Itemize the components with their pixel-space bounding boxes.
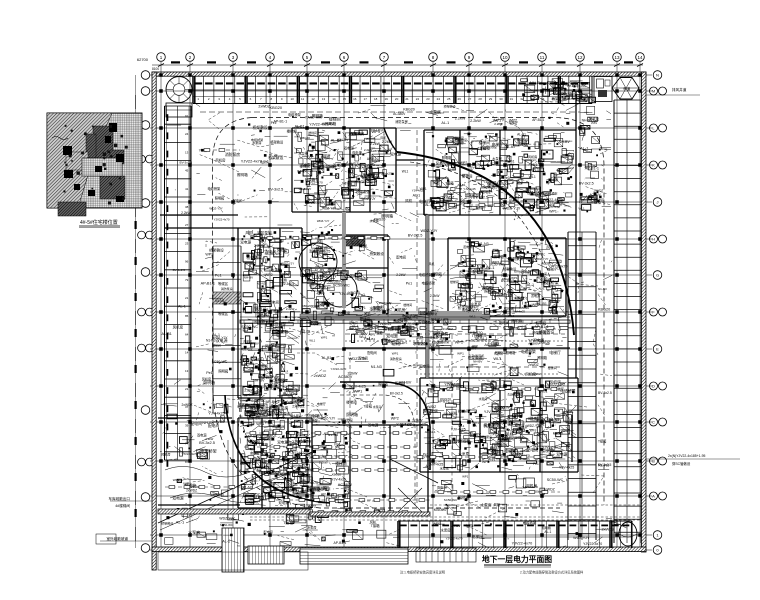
svg-text:电缆桥架: 电缆桥架 <box>422 281 436 286</box>
svg-text:风机房: 风机房 <box>215 158 226 163</box>
svg-text:电梯厅: 电梯厅 <box>467 345 478 350</box>
svg-text:楼梯间: 楼梯间 <box>504 306 515 311</box>
svg-text:电缆桥架: 电缆桥架 <box>419 272 433 277</box>
svg-text:18: 18 <box>374 97 378 101</box>
svg-text:消防泵房: 消防泵房 <box>221 286 233 291</box>
svg-text:桥架敷设: 桥架敷设 <box>545 88 557 93</box>
svg-text:YJV22-4x70: YJV22-4x70 <box>522 485 538 489</box>
svg-text:桥架敷设: 桥架敷设 <box>253 125 268 130</box>
svg-text:电缆桥架: 电缆桥架 <box>271 322 286 327</box>
svg-text:NH-BV: NH-BV <box>444 412 453 416</box>
svg-text:AL-B1: AL-B1 <box>254 358 264 362</box>
svg-text:YJV-4x25: YJV-4x25 <box>360 174 374 178</box>
svg-text:YJV22-4x70: YJV22-4x70 <box>307 201 323 205</box>
svg-text:AL-1: AL-1 <box>539 287 545 291</box>
svg-text:风机房: 风机房 <box>161 452 170 457</box>
svg-text:16: 16 <box>353 97 357 101</box>
svg-text:13: 13 <box>322 97 326 101</box>
svg-text:Pe1: Pe1 <box>423 453 429 457</box>
svg-text:Pe1: Pe1 <box>406 281 412 285</box>
svg-text:WDZ-YJY: WDZ-YJY <box>281 261 294 265</box>
svg-text:C: C <box>652 420 655 425</box>
svg-text:水泵房: 水泵房 <box>252 140 261 145</box>
svg-text:2xWDZ: 2xWDZ <box>212 419 226 424</box>
svg-text:WDZ-YJY: WDZ-YJY <box>249 413 262 417</box>
svg-text:WDZ-YJY: WDZ-YJY <box>320 274 337 278</box>
svg-text:62700: 62700 <box>137 57 149 62</box>
svg-text:电缆桥架: 电缆桥架 <box>201 448 217 454</box>
svg-text:楼梯间: 楼梯间 <box>280 472 291 477</box>
svg-text:配电间: 配电间 <box>540 277 551 282</box>
svg-text:SC50-WC: SC50-WC <box>547 478 564 482</box>
svg-text:YJV22-4x70: YJV22-4x70 <box>214 218 230 222</box>
svg-text:照明箱: 照明箱 <box>215 196 225 201</box>
svg-text:楼梯间: 楼梯间 <box>275 424 286 429</box>
svg-text:水泵房: 水泵房 <box>492 156 502 161</box>
svg-text:WDZ-YJY: WDZ-YJY <box>219 517 235 521</box>
svg-text:电梯厅: 电梯厅 <box>273 308 283 313</box>
svg-text:配电间: 配电间 <box>233 198 242 203</box>
svg-text:风机: 风机 <box>349 131 356 136</box>
svg-text:AL-1: AL-1 <box>352 324 359 328</box>
svg-text:21: 21 <box>405 97 409 101</box>
svg-text:SC50-WC: SC50-WC <box>572 84 587 88</box>
svg-text:配电间: 配电间 <box>437 485 446 490</box>
svg-text:AL-B1: AL-B1 <box>315 268 325 272</box>
svg-text:WP2: WP2 <box>173 478 180 482</box>
svg-text:21: 21 <box>185 387 189 391</box>
svg-text:2xWDZ: 2xWDZ <box>182 403 193 407</box>
svg-text:N1-N3: N1-N3 <box>550 418 560 422</box>
svg-text:风机: 风机 <box>245 230 252 235</box>
svg-text:N1-N3: N1-N3 <box>392 343 401 347</box>
svg-text:配电间: 配电间 <box>473 269 484 274</box>
svg-text:NH-BV: NH-BV <box>559 140 571 144</box>
svg-text:风机房: 风机房 <box>311 303 320 308</box>
svg-text:AL-1: AL-1 <box>213 333 220 337</box>
svg-text:电缆桥架: 电缆桥架 <box>237 404 251 409</box>
svg-text:AL-B1: AL-B1 <box>480 190 491 195</box>
svg-text:26: 26 <box>458 97 462 101</box>
svg-text:2.2kW: 2.2kW <box>430 294 440 298</box>
svg-text:14: 14 <box>637 55 643 60</box>
svg-text:桥架敷设: 桥架敷设 <box>517 137 528 141</box>
svg-text:2.2kW: 2.2kW <box>488 423 499 427</box>
svg-text:2.2kW: 2.2kW <box>396 273 406 277</box>
svg-text:27: 27 <box>468 97 472 101</box>
svg-text:64: 64 <box>185 332 189 336</box>
svg-text:双电源: 双电源 <box>390 151 401 156</box>
svg-text:2xWDZ: 2xWDZ <box>413 342 426 346</box>
svg-text:SC50-WC: SC50-WC <box>333 284 350 288</box>
svg-text:风机房: 风机房 <box>528 154 537 159</box>
svg-text:照明箱: 照明箱 <box>432 272 443 277</box>
svg-text:WP1: WP1 <box>472 421 479 425</box>
svg-text:2.2kW: 2.2kW <box>470 119 481 123</box>
svg-text:水泵房: 水泵房 <box>304 162 315 167</box>
svg-text:楼梯间: 楼梯间 <box>329 116 341 122</box>
svg-text:AP-B1-1: AP-B1-1 <box>532 118 544 122</box>
svg-text:T接箱: T接箱 <box>363 404 372 409</box>
svg-text:BV-3x2.5: BV-3x2.5 <box>514 269 530 274</box>
svg-text:WP1: WP1 <box>354 388 362 393</box>
svg-text:水泵房: 水泵房 <box>485 308 494 313</box>
svg-text:桥架敷设: 桥架敷设 <box>486 145 497 149</box>
svg-text:J: J <box>657 200 659 205</box>
svg-text:配电间: 配电间 <box>264 529 273 534</box>
svg-text:穿SC管敷设: 穿SC管敷设 <box>672 461 691 466</box>
svg-text:45: 45 <box>185 169 189 173</box>
svg-text:楼梯间: 楼梯间 <box>450 279 459 284</box>
svg-text:水泵房: 水泵房 <box>441 527 452 532</box>
svg-text:27: 27 <box>185 223 189 227</box>
svg-text:车道: 车道 <box>623 86 631 91</box>
svg-text:配电间: 配电间 <box>419 364 430 369</box>
svg-text:水泵房: 水泵房 <box>480 502 492 507</box>
svg-text:BV-3x2.5: BV-3x2.5 <box>553 92 567 96</box>
svg-text:WP1: WP1 <box>492 261 500 265</box>
svg-text:照明箱: 照明箱 <box>459 438 471 443</box>
svg-text:NH-BV: NH-BV <box>371 129 383 133</box>
svg-text:双电源: 双电源 <box>240 240 251 245</box>
svg-text:T接箱: T接箱 <box>592 200 601 205</box>
svg-text:WP2: WP2 <box>509 118 517 123</box>
svg-text:Pe1: Pe1 <box>206 371 213 375</box>
svg-text:YJV-4x25: YJV-4x25 <box>331 477 346 481</box>
svg-text:T接箱: T接箱 <box>398 318 408 323</box>
svg-text:2.2kW: 2.2kW <box>370 142 381 146</box>
svg-text:WP1: WP1 <box>321 336 328 340</box>
svg-text:风机: 风机 <box>546 245 554 250</box>
svg-text:10: 10 <box>291 97 295 101</box>
svg-text:AP-B1-1: AP-B1-1 <box>243 360 254 364</box>
svg-text:水泵房: 水泵房 <box>440 160 449 165</box>
svg-text:N1-N3: N1-N3 <box>242 486 252 490</box>
svg-text:楼梯间: 楼梯间 <box>212 343 221 347</box>
svg-text:风机房: 风机房 <box>549 380 561 385</box>
svg-text:楼梯间: 楼梯间 <box>335 461 347 466</box>
svg-text:Pe1: Pe1 <box>271 121 277 125</box>
svg-text:AL-1: AL-1 <box>293 423 301 428</box>
svg-text:双电源: 双电源 <box>497 292 506 297</box>
svg-text:WDZ-YJY: WDZ-YJY <box>527 424 542 428</box>
svg-text:17: 17 <box>364 97 368 101</box>
svg-text:等候区: 等候区 <box>218 281 229 286</box>
svg-text:AL-1: AL-1 <box>580 146 589 151</box>
svg-text:水泵房: 水泵房 <box>307 525 316 530</box>
svg-text:T接箱: T接箱 <box>261 459 271 465</box>
svg-text:水泵房: 水泵房 <box>373 404 382 409</box>
svg-text:13: 13 <box>614 55 620 60</box>
svg-text:风机房: 风机房 <box>173 324 184 329</box>
svg-text:NH-BV: NH-BV <box>338 138 350 142</box>
svg-text:楼梯间: 楼梯间 <box>403 302 412 307</box>
svg-text:楼梯间: 楼梯间 <box>308 131 317 135</box>
svg-text:8100: 8100 <box>152 67 159 71</box>
svg-text:AP-B1-1: AP-B1-1 <box>367 157 379 161</box>
svg-text:H: H <box>652 237 655 242</box>
svg-text:照明箱: 照明箱 <box>542 525 551 530</box>
svg-text:2xWDZ: 2xWDZ <box>528 363 539 367</box>
svg-text:AP-B1-1: AP-B1-1 <box>585 166 599 170</box>
svg-text:水泵房: 水泵房 <box>341 310 351 315</box>
svg-text:T接箱: T接箱 <box>371 523 380 528</box>
svg-text:照明箱: 照明箱 <box>203 380 215 385</box>
svg-text:N1-N3: N1-N3 <box>215 299 224 303</box>
svg-text:配电间: 配电间 <box>396 254 406 259</box>
svg-text:20: 20 <box>395 97 399 101</box>
svg-text:M: M <box>652 89 655 94</box>
svg-text:排风井道: 排风井道 <box>672 87 687 92</box>
svg-text:照明箱: 照明箱 <box>494 254 505 259</box>
svg-text:29: 29 <box>489 97 493 101</box>
svg-text:风机: 风机 <box>439 336 446 341</box>
svg-text:NH-BV: NH-BV <box>244 276 253 280</box>
svg-text:SC50-WC: SC50-WC <box>471 338 488 342</box>
svg-text:BV-3x2.5: BV-3x2.5 <box>598 391 612 395</box>
svg-text:电缆桥架: 电缆桥架 <box>208 186 222 191</box>
svg-text:2.2kW: 2.2kW <box>382 140 393 144</box>
svg-text:配电间: 配电间 <box>190 421 202 426</box>
svg-text:N1-N3: N1-N3 <box>206 339 216 343</box>
svg-text:地下一层电力平面图: 地下一层电力平面图 <box>482 554 552 564</box>
svg-text:YJV-4x25: YJV-4x25 <box>463 187 476 191</box>
svg-text:2.2kW: 2.2kW <box>254 243 265 248</box>
svg-text:AL-1: AL-1 <box>176 519 185 524</box>
svg-text:2.2kW: 2.2kW <box>494 122 503 126</box>
svg-text:桥架敷设: 桥架敷设 <box>455 137 467 142</box>
svg-text:风机房: 风机房 <box>243 339 252 344</box>
svg-text:D: D <box>652 384 655 389</box>
svg-text:KBG20: KBG20 <box>213 493 224 497</box>
svg-text:电梯厅: 电梯厅 <box>317 401 326 406</box>
svg-text:2.2kW: 2.2kW <box>181 211 191 215</box>
svg-text:照明箱: 照明箱 <box>442 155 452 160</box>
svg-text:WDZ-YJY: WDZ-YJY <box>299 187 312 191</box>
svg-text:2xWDZ: 2xWDZ <box>250 366 260 370</box>
svg-text:WL1: WL1 <box>402 170 409 174</box>
svg-text:BV-3x2.5: BV-3x2.5 <box>579 182 594 186</box>
svg-text:室外疏散坡道: 室外疏散坡道 <box>106 536 128 541</box>
svg-text:79: 79 <box>185 278 189 282</box>
svg-text:水泵房: 水泵房 <box>479 396 488 401</box>
svg-text:电缆桥架: 电缆桥架 <box>523 520 537 525</box>
svg-text:10: 10 <box>502 55 508 60</box>
svg-text:N: N <box>656 73 659 78</box>
svg-text:水泵房: 水泵房 <box>271 267 282 272</box>
svg-text:桥架敷设: 桥架敷设 <box>247 255 263 260</box>
svg-text:双电源: 双电源 <box>216 338 228 343</box>
svg-text:消防泵房: 消防泵房 <box>395 119 408 124</box>
svg-text:2.2kW: 2.2kW <box>367 180 378 184</box>
svg-text:照明箱: 照明箱 <box>346 412 358 417</box>
svg-text:12: 12 <box>311 97 315 101</box>
svg-text:WL1: WL1 <box>493 356 502 361</box>
svg-text:消防泵房: 消防泵房 <box>390 356 402 361</box>
svg-text:桥架敷设: 桥架敷设 <box>532 330 546 335</box>
svg-text:WP1: WP1 <box>358 306 365 310</box>
svg-text:WP1: WP1 <box>297 170 305 174</box>
svg-text:2xWDZ: 2xWDZ <box>346 162 359 166</box>
svg-text:KBG20: KBG20 <box>302 304 312 308</box>
svg-text:24: 24 <box>185 132 189 136</box>
svg-text:SC50-WC: SC50-WC <box>241 325 258 329</box>
svg-text:N1-N3: N1-N3 <box>598 287 607 291</box>
svg-text:WDZ-YJY: WDZ-YJY <box>322 207 337 211</box>
svg-text:照明箱: 照明箱 <box>237 172 248 177</box>
svg-text:28: 28 <box>478 97 482 101</box>
svg-text:23: 23 <box>185 241 189 245</box>
svg-text:照明箱: 照明箱 <box>218 369 229 374</box>
svg-text:2.2kW: 2.2kW <box>425 320 435 324</box>
svg-text:电梯厅: 电梯厅 <box>589 194 598 199</box>
svg-text:风机: 风机 <box>241 461 248 466</box>
svg-text:AL-1: AL-1 <box>316 263 324 268</box>
svg-text:Pe1: Pe1 <box>563 83 569 87</box>
svg-text:WP2: WP2 <box>265 273 273 277</box>
svg-text:AP-B1-1: AP-B1-1 <box>425 430 436 434</box>
svg-text:Pe1: Pe1 <box>402 340 407 344</box>
svg-text:配电间: 配电间 <box>266 249 277 254</box>
svg-text:2.2kW: 2.2kW <box>364 148 373 152</box>
svg-text:KBG20: KBG20 <box>400 329 412 333</box>
svg-text:BV-3x2.5: BV-3x2.5 <box>173 268 186 272</box>
svg-text:YJV-4x25: YJV-4x25 <box>512 310 525 314</box>
svg-text:照明箱: 照明箱 <box>458 495 470 500</box>
svg-text:41: 41 <box>185 187 189 191</box>
svg-text:KBG20: KBG20 <box>303 169 313 173</box>
svg-text:WDZ-YJY: WDZ-YJY <box>253 306 266 310</box>
svg-text:电梯厅: 电梯厅 <box>472 534 483 539</box>
svg-text:SC50-WC: SC50-WC <box>444 498 458 502</box>
svg-text:双电源: 双电源 <box>368 422 379 427</box>
svg-text:BV-3x2.5: BV-3x2.5 <box>355 277 369 281</box>
svg-text:车库疏散出口: 车库疏散出口 <box>108 496 130 501</box>
svg-text:2.2kW: 2.2kW <box>286 307 295 311</box>
svg-text:KBG20: KBG20 <box>598 307 610 311</box>
svg-text:AC380V: AC380V <box>280 436 291 440</box>
svg-text:风机: 风机 <box>494 502 501 507</box>
svg-text:WP2: WP2 <box>482 460 489 464</box>
svg-text:WL1: WL1 <box>508 314 515 318</box>
svg-text:电缆桥架: 电缆桥架 <box>288 112 302 117</box>
svg-text:14: 14 <box>185 351 189 355</box>
svg-text:2.2kW: 2.2kW <box>319 461 328 465</box>
svg-text:N1-N3: N1-N3 <box>257 282 266 286</box>
svg-text:桥架敷设: 桥架敷设 <box>161 521 173 526</box>
svg-text:13: 13 <box>185 150 189 154</box>
svg-text:2.2kW: 2.2kW <box>548 310 557 314</box>
svg-text:KBG20: KBG20 <box>270 105 283 110</box>
svg-text:A: A <box>652 494 655 499</box>
svg-text:2.2kW: 2.2kW <box>455 117 466 121</box>
svg-text:WP1: WP1 <box>462 475 469 479</box>
svg-text:桥架敷设: 桥架敷设 <box>444 104 456 109</box>
svg-text:楼梯间: 楼梯间 <box>502 436 514 441</box>
svg-text:38: 38 <box>185 205 189 209</box>
svg-text:YJV22-4x70: YJV22-4x70 <box>297 480 319 485</box>
svg-text:电梯厅: 电梯厅 <box>461 281 472 286</box>
svg-text:WP2: WP2 <box>317 292 325 296</box>
svg-text:AL-B1: AL-B1 <box>162 332 172 336</box>
svg-text:水泵房: 水泵房 <box>250 440 261 445</box>
svg-text:配电间: 配电间 <box>367 350 377 355</box>
svg-text:BV-3x2.5: BV-3x2.5 <box>180 161 193 165</box>
svg-text:2.2kW: 2.2kW <box>348 372 359 376</box>
svg-text:YJV22-4x70: YJV22-4x70 <box>446 537 463 541</box>
svg-text:BV-3x2.5: BV-3x2.5 <box>281 282 294 286</box>
svg-text:Pe1: Pe1 <box>533 462 539 466</box>
svg-text:水泵房: 水泵房 <box>440 465 449 470</box>
svg-text:电缆桥架: 电缆桥架 <box>560 389 575 394</box>
svg-text:T接箱: T接箱 <box>283 520 293 525</box>
svg-text:风机: 风机 <box>506 432 514 437</box>
svg-text:配电间: 配电间 <box>293 397 304 402</box>
svg-text:SC50-WC: SC50-WC <box>251 399 266 403</box>
svg-text:照明箱: 照明箱 <box>511 319 523 324</box>
svg-text:AP-B1-1: AP-B1-1 <box>321 493 334 497</box>
svg-text:照明箱: 照明箱 <box>254 319 265 324</box>
svg-text:风机: 风机 <box>405 198 413 203</box>
svg-text:WDZ-YJY: WDZ-YJY <box>273 416 286 420</box>
svg-text:YJV-4x25: YJV-4x25 <box>379 172 392 176</box>
svg-text:SC50-WC: SC50-WC <box>530 418 547 422</box>
svg-text:WP1: WP1 <box>373 149 380 153</box>
svg-text:双电源: 双电源 <box>386 333 398 338</box>
svg-text:WP1: WP1 <box>420 187 427 191</box>
svg-text:YJV-4x25: YJV-4x25 <box>378 322 392 326</box>
svg-text:N1-N3: N1-N3 <box>478 242 488 246</box>
svg-text:配电间: 配电间 <box>526 448 538 453</box>
svg-text:KBG20: KBG20 <box>365 326 377 330</box>
svg-text:14: 14 <box>332 97 336 101</box>
svg-text:WP2: WP2 <box>460 161 468 165</box>
svg-text:YJV-4x25: YJV-4x25 <box>208 411 225 416</box>
svg-text:电梯厅: 电梯厅 <box>465 523 474 528</box>
svg-text:YJV22-4x70: YJV22-4x70 <box>512 542 533 546</box>
svg-text:YJV22-4x70: YJV22-4x70 <box>542 446 562 450</box>
svg-text:N1-N3: N1-N3 <box>569 93 579 97</box>
svg-text:楼梯间: 楼梯间 <box>548 365 557 370</box>
svg-text:配电间: 配电间 <box>358 355 368 360</box>
svg-text:水泵房: 水泵房 <box>298 151 308 156</box>
svg-text:桥架敷设: 桥架敷设 <box>370 251 385 256</box>
svg-text:2xWDZ: 2xWDZ <box>425 405 436 409</box>
svg-text:25: 25 <box>447 97 451 101</box>
svg-text:AL-1: AL-1 <box>530 191 538 195</box>
svg-text:BV-3x2.5: BV-3x2.5 <box>408 233 423 237</box>
svg-text:2.动力配电线路穿管及敷设方式详见系统图样: 2.动力配电线路穿管及敷设方式详见系统图样 <box>520 570 584 575</box>
svg-text:WP1: WP1 <box>433 521 441 526</box>
svg-text:YJV22-4x70: YJV22-4x70 <box>309 122 329 126</box>
svg-text:WL1: WL1 <box>529 175 536 179</box>
svg-text:30: 30 <box>499 97 503 101</box>
svg-text:NH-BV: NH-BV <box>351 242 362 246</box>
svg-text:AL-B1: AL-B1 <box>367 337 376 341</box>
svg-text:照明箱: 照明箱 <box>381 213 393 218</box>
svg-text:AL-B1: AL-B1 <box>322 356 332 360</box>
svg-text:31: 31 <box>510 97 514 101</box>
svg-text:YJV22-4x70: YJV22-4x70 <box>583 542 602 546</box>
svg-text:91: 91 <box>185 114 189 118</box>
svg-text:WDZ-YJY: WDZ-YJY <box>421 229 438 233</box>
svg-text:照明箱: 照明箱 <box>506 350 516 355</box>
svg-text:KBG20: KBG20 <box>348 291 360 295</box>
svg-text:AL-B1: AL-B1 <box>517 133 526 137</box>
svg-text:AL-1: AL-1 <box>413 194 421 198</box>
svg-text:SC50-WC: SC50-WC <box>220 523 233 527</box>
svg-text:风机: 风机 <box>478 353 484 358</box>
